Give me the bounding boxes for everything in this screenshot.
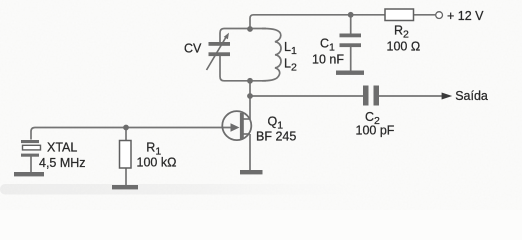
svg-text:100 pF: 100 pF xyxy=(356,123,395,137)
ground (R1) xyxy=(112,185,138,189)
svg-text:Saída: Saída xyxy=(455,89,488,103)
svg-text:+ 12 V: + 12 V xyxy=(447,9,484,23)
tank loop: CV branch and top/bottom sides xyxy=(220,29,266,43)
node loop bottom junction xyxy=(247,78,253,84)
node gate-R1 junction xyxy=(123,125,129,131)
inductor L1 L2 coil xyxy=(262,28,281,80)
terminal +12V xyxy=(436,12,443,19)
wire: transistor source stub xyxy=(244,133,251,135)
ground (crystal) xyxy=(14,172,44,176)
wire: transistor source to ground xyxy=(249,134,251,170)
wire: R1 box bottom to ground xyxy=(125,168,127,185)
capacitor C2 xyxy=(363,86,379,106)
capacitor CV (variable) xyxy=(207,33,231,70)
svg-text:100 kΩ: 100 kΩ xyxy=(137,156,177,170)
svg-text:10 nF: 10 nF xyxy=(312,53,344,67)
wire: output line from C2 to arrow xyxy=(379,95,443,97)
output arrow Saída xyxy=(442,93,453,100)
svg-text:BF 245: BF 245 xyxy=(256,130,296,144)
resistor R2 xyxy=(385,9,414,21)
junction dots xyxy=(123,12,354,130)
wire: C1 branch from rail to top plate xyxy=(350,15,352,34)
node output tap junction xyxy=(247,93,253,99)
wire: R1 branch from gate rail to box xyxy=(125,128,127,141)
ground (C1) xyxy=(336,71,364,75)
svg-text:100 Ω: 100 Ω xyxy=(387,40,421,54)
resistor R1 xyxy=(120,141,132,169)
wire: crystal bottom to ground xyxy=(30,157,32,173)
wire: output line from drain to C2 xyxy=(250,95,363,97)
svg-text:XTAL: XTAL xyxy=(47,141,77,155)
wire: C1 bottom plate to ground xyxy=(350,47,352,71)
transistor Q1 xyxy=(222,111,251,140)
wire: top supply rail right segment R2 to terminal xyxy=(414,14,436,16)
wire: drain vertical from loop bottom to transistor xyxy=(249,81,251,119)
ground (Q1 source) xyxy=(240,170,263,174)
wire: gate rail from crystal to transistor xyxy=(31,128,232,140)
crystal XTAL xyxy=(21,140,41,157)
svg-text:CV: CV xyxy=(184,41,202,55)
capacitor C1 xyxy=(340,34,362,48)
wire: top supply rail left segment xyxy=(250,15,385,29)
svg-text:4,5 MHz: 4,5 MHz xyxy=(39,156,86,170)
node rail-C1 junction xyxy=(348,12,354,18)
wire: transistor drain stub xyxy=(244,118,251,120)
node loop top junction xyxy=(247,26,253,32)
